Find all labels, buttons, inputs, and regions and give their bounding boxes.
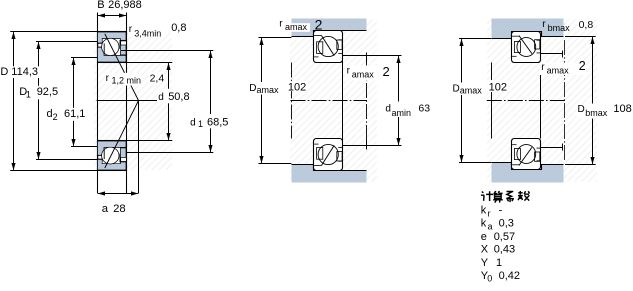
mask box for label r12min: [105, 73, 142, 86]
svg-text:0,57: 0,57: [494, 231, 515, 243]
svg-text:2: 2: [383, 64, 390, 79]
housing block top: [292, 19, 367, 37]
mask box for label d2 61,1: [63, 108, 85, 121]
mask box for label D1 92,5: [35, 86, 59, 100]
cage bar right: [119, 40, 121, 49]
svg-text:1: 1: [26, 90, 31, 100]
svg-text:0,8: 0,8: [579, 19, 594, 31]
svg-text:bmax: bmax: [548, 23, 571, 33]
title (CJK glyphs drawn as strokes): [481, 191, 530, 203]
bearing outline bottom (mirror): [314, 139, 343, 171]
svg-text:3,4min: 3,4min: [134, 29, 161, 39]
outer ring (blue): [98, 32, 127, 55]
wire: left face line: [97, 13, 99, 194]
svg-text:D: D: [453, 83, 460, 94]
bearing outline top: [314, 31, 343, 63]
mask box for label r34min: [128, 22, 165, 37]
svg-text:114,3: 114,3: [11, 66, 38, 78]
svg-text:68,5: 68,5: [207, 116, 228, 128]
housing block bottom: [492, 163, 564, 183]
char suan: [493, 191, 503, 202]
dimension d1: [210, 51, 212, 152]
shoulder line upper: [541, 51, 563, 58]
mask box for label ra max (top): [284, 23, 310, 32]
dimension da min: [343, 55, 402, 57]
svg-text:50,8: 50,8: [168, 91, 189, 103]
char ji: [481, 191, 493, 201]
svg-text:108: 108: [613, 103, 631, 115]
svg-text:k: k: [481, 204, 487, 216]
dimension Da max (right view): [459, 38, 491, 40]
svg-text:Y: Y: [481, 257, 489, 269]
cage marks: [514, 42, 520, 53]
svg-text:amax: amax: [257, 85, 280, 95]
shaft shoulder: [342, 58, 344, 144]
mask box for label Db max: [577, 104, 610, 119]
mask box for label 0,8: [171, 22, 189, 34]
dimension D1 extension lines: [36, 41, 97, 43]
svg-text:61,1: 61,1: [64, 108, 85, 120]
svg-text:D: D: [578, 104, 585, 115]
svg-text:2: 2: [53, 112, 58, 122]
inner ring (blue): [98, 47, 127, 62]
contact line: [322, 36, 335, 56]
cage bar left: [103, 43, 105, 54]
mask box for label d1 68,5: [189, 114, 230, 128]
dimension D: [13, 32, 15, 170]
cage notch right: [121, 41, 127, 45]
char xi: [506, 192, 514, 203]
mask box for label 2,4: [148, 72, 164, 83]
svg-text:1,2 min: 1,2 min: [112, 76, 142, 86]
bottom bearing section (mirror): [98, 140, 127, 170]
mask box for label ra max (mid): [346, 66, 391, 81]
svg-text:0,8: 0,8: [171, 22, 186, 34]
svg-text:B: B: [97, 0, 104, 11]
svg-text:102: 102: [288, 81, 306, 93]
svg-text:d: d: [190, 117, 196, 128]
svg-text:amax: amax: [285, 22, 308, 32]
svg-text:1: 1: [198, 119, 203, 129]
dimension B: [98, 15, 126, 17]
svg-text:r: r: [488, 209, 491, 219]
svg-text:0,3: 0,3: [499, 218, 514, 230]
mask box for label 102 (right view): [488, 80, 509, 92]
shaft broken edge: [366, 53, 368, 150]
bearing face lines: [291, 63, 293, 139]
housing block bottom: [292, 165, 367, 183]
svg-text:amax: amax: [352, 69, 375, 79]
housing block top: [492, 19, 564, 39]
svg-text:a: a: [102, 203, 109, 215]
dimension Db max: [565, 36, 596, 38]
svg-text:2: 2: [579, 59, 586, 73]
svg-text:d: d: [385, 104, 391, 115]
svg-text:1: 1: [496, 257, 502, 269]
char shu: [518, 191, 530, 201]
dimension d1 extension lines: [121, 50, 213, 52]
axis (centerline): [487, 100, 565, 102]
hatched backdrop right view: [487, 20, 597, 182]
top bearing section: [98, 32, 127, 63]
svg-text:amax: amax: [460, 85, 483, 95]
ball: [318, 36, 338, 56]
contact angle line upper: [105, 34, 139, 101]
cage notch left: [98, 43, 104, 47]
bearing outline bottom (mirror): [512, 139, 541, 170]
axis (centerline): [291, 100, 368, 102]
dimension d2: [73, 58, 75, 146]
ball: [102, 38, 119, 55]
svg-text:0,43: 0,43: [494, 244, 515, 256]
dimension a: [98, 193, 138, 195]
svg-text:26,988: 26,988: [108, 0, 142, 11]
broken edge dash-dot: [564, 40, 566, 161]
hatched backdrop middle view: [290, 20, 377, 182]
cage marks: [317, 42, 323, 54]
svg-text:0: 0: [487, 274, 492, 284]
svg-text:102: 102: [489, 81, 507, 93]
dimension d extension lines: [127, 62, 172, 64]
svg-text:-: -: [499, 204, 503, 216]
svg-text:D: D: [249, 83, 256, 94]
face lines between sections: [491, 63, 493, 139]
svg-text:amin: amin: [392, 108, 412, 118]
contact line: [519, 36, 532, 54]
svg-text:X: X: [481, 244, 489, 256]
mask box for label 102: [287, 81, 308, 91]
mask box for label Da max (right view): [452, 83, 482, 96]
mask box for label 0,8 (right view): [578, 19, 595, 30]
dimension d2 extension lines: [71, 57, 97, 59]
svg-text:amax: amax: [547, 65, 570, 75]
dimension Da max: [259, 37, 292, 39]
svg-text:63: 63: [418, 103, 430, 115]
svg-text:bmax: bmax: [585, 108, 608, 118]
svg-text:28: 28: [113, 203, 126, 215]
mask box for label ra max (right view): [540, 63, 586, 76]
dimension D extension lines: [10, 31, 97, 33]
mask box for label da min: [381, 102, 413, 118]
mask box for label D 114,3: [11, 66, 41, 78]
svg-text:2: 2: [315, 17, 323, 33]
shoulder line lower: [541, 144, 563, 151]
svg-text:2,4: 2,4: [150, 73, 165, 85]
mask box for label Da max: [249, 82, 281, 95]
axis line: [97, 100, 157, 102]
ball: [517, 38, 536, 57]
svg-text:D: D: [0, 66, 8, 78]
svg-text:d: d: [158, 92, 164, 103]
svg-text:0,42: 0,42: [499, 270, 520, 282]
pressure centre extension: [138, 101, 140, 194]
contact angle line lower: [105, 101, 139, 169]
hatched backdrop left view: [94, 31, 172, 170]
wire: right face line: [126, 13, 128, 194]
svg-text:a: a: [488, 221, 493, 231]
bearing outline top: [512, 32, 541, 63]
dimension D1: [38, 42, 40, 159]
dimension d: [168, 63, 170, 140]
svg-text:k: k: [481, 218, 487, 230]
svg-text:92,5: 92,5: [37, 86, 58, 98]
mask box for label d 50,8: [158, 89, 193, 104]
svg-text:e: e: [481, 231, 487, 243]
